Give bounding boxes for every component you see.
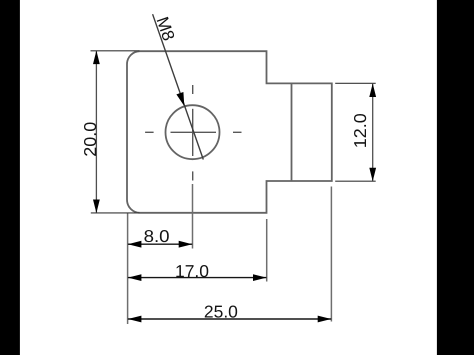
leader line M8 xyxy=(153,14,204,159)
hole circle M8 xyxy=(166,105,220,159)
label M8 text xyxy=(152,14,179,43)
horizontal centerline xyxy=(145,131,241,133)
dimension 12.0 text xyxy=(350,113,370,148)
part outline xyxy=(127,51,332,213)
dimension 20.0 line xyxy=(93,51,100,213)
extension lines horizontal xyxy=(91,51,376,213)
svg-text:20.0: 20.0 xyxy=(80,122,100,157)
vertical centerline xyxy=(192,85,194,181)
svg-text:M8: M8 xyxy=(152,14,179,43)
svg-text:12.0: 12.0 xyxy=(350,113,370,148)
dimension 12.0 line xyxy=(369,84,376,182)
dimension 8.0 line xyxy=(128,241,192,248)
right letterbox bar xyxy=(437,0,474,355)
svg-text:17.0: 17.0 xyxy=(175,261,209,281)
svg-text:8.0: 8.0 xyxy=(144,226,170,246)
dimension 17.0 text xyxy=(175,261,209,281)
dimension 20.0 text xyxy=(80,122,100,157)
dimension 17.0 line xyxy=(128,274,267,281)
left letterbox bar xyxy=(0,0,20,355)
extension lines vertical xyxy=(128,184,332,324)
svg-text:25.0: 25.0 xyxy=(204,301,238,321)
dimension 25.0 line xyxy=(128,316,331,323)
dimension 8.0 text xyxy=(144,226,170,246)
dimension 25.0 text xyxy=(204,301,238,321)
internal edge line xyxy=(291,83,293,181)
